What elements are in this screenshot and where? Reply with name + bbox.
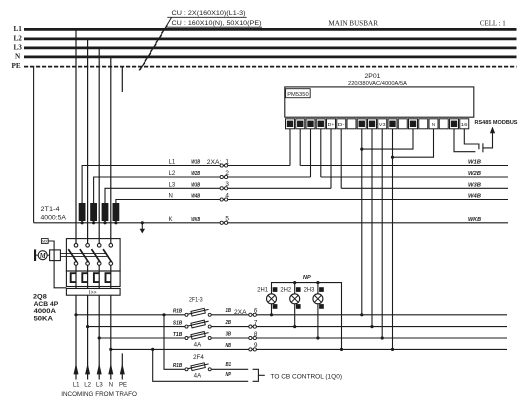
svg-text:I>>: I>> [89,290,97,296]
wire N dropper [110,57,112,244]
wire NP bus [272,283,342,350]
svg-text:MAIN BUSBAR: MAIN BUSBAR [328,20,378,28]
breaker pole L2 blade [80,249,89,262]
svg-text:CU : 160X10(N), 50X10(PE): CU : 160X10(N), 50X10(PE) [172,20,262,27]
svg-text:2T1-4: 2T1-4 [41,206,60,213]
wire control row 8 left [99,337,185,339]
junction T8 [360,313,363,316]
lamp 2H3 terminals [319,287,324,292]
junction 2F4 tap [162,313,165,316]
svg-text:3B: 3B [226,331,232,337]
lamp 2H2 terminals [296,287,301,292]
terminal 2XA:7 [249,325,252,328]
wire meter terminal 9 [371,129,373,327]
wire meter terminal 11 [392,129,394,350]
svg-text:S1B: S1B [173,320,182,326]
CT 2T3 (L3) [102,203,109,221]
terminal 2XA:1 [220,164,223,167]
trip sensor L1 [71,273,76,282]
svg-text:2B: 2B [225,320,232,326]
svg-text:2H2: 2H2 [280,287,291,293]
svg-text:WKB: WKB [191,217,200,223]
trip relay strip [66,289,120,296]
wire PE incoming lower [121,353,123,379]
ground symbol [141,223,143,229]
wire control row 8 right [211,337,507,339]
svg-text:L2: L2 [14,35,23,43]
wire MX to trip [48,241,66,288]
svg-text:WKB: WKB [468,217,481,223]
connector RS485 [482,143,484,152]
breaker pole N bottom contact [109,262,113,266]
terminal 2XA:9 [249,348,252,351]
svg-text:L2: L2 [84,383,91,389]
junction row 7 tap [86,325,89,328]
svg-text:NP: NP [226,372,232,378]
svg-text:W3B: W3B [468,183,481,189]
busbar L1 [24,28,517,31]
svg-text:N: N [15,53,21,61]
svg-text:W4B: W4B [468,194,481,200]
cable tick at L3 [150,44,156,52]
wire meter terminal 10 [381,129,383,338]
power meter U2P01 box [285,87,474,117]
wire meter terminal 4 [320,129,322,177]
svg-text:2XA:: 2XA: [207,159,222,166]
svg-text:4000A: 4000A [34,308,56,315]
CT 2T1 (L1) [79,203,86,221]
fuse 2F1-3 pole T [188,333,209,338]
svg-text:5: 5 [225,216,229,223]
wire control row 9 (N) [111,348,507,350]
svg-text:W2B: W2B [191,171,200,177]
lamp 2H1 terminals [273,287,278,292]
breaker pole N blade [103,249,112,262]
node L3 row left [105,188,331,203]
wire RS485 A [454,129,475,152]
junction NP return [151,348,154,351]
wire motor-linkage [47,254,49,256]
junction CT3-K [103,221,106,224]
wire meter terminal 2 [299,129,301,166]
svg-text:2: 2 [225,170,229,177]
incoming arrow L3 [97,363,102,374]
busbar PE [24,66,517,68]
terminal 2XA:6 [249,313,252,316]
svg-text:R1B: R1B [173,309,182,315]
wire RS485 B [464,129,479,149]
svg-text:6: 6 [254,308,258,315]
lamp 2H2 [290,294,300,304]
wire aux T11-T15 [393,129,434,157]
svg-text:N: N [109,383,113,389]
junction NP-row9 [340,348,343,351]
linkage box [50,250,61,261]
incoming arrow L2 [85,363,90,374]
junction lamp 3 [316,336,319,339]
wire pole N lower [110,265,112,379]
svg-text:2F4: 2F4 [193,355,204,361]
node K row [34,222,508,224]
lamp 2H3 [313,294,323,304]
svg-text:MX: MX [42,240,48,244]
CT 2T2 (L2) [90,203,97,221]
svg-text:4A: 4A [194,373,202,379]
wire control row 6 left [76,314,185,316]
cable label underline 1 [167,16,246,18]
meter model PM5350 [286,89,311,98]
wire lamp 3 top [317,283,319,294]
trip sensor L3 [94,273,99,282]
busbar L2 [24,38,517,41]
breaker pole L3 top contact [97,244,101,248]
junction NP lamp 3 [316,281,319,284]
svg-text:CU : 2X(160X10)(L1-3): CU : 2X(160X10)(L1-3) [172,10,246,17]
terminal 2XA:5 [220,221,223,224]
breaker pole N top contact [109,244,113,248]
cable tick at N [145,53,151,61]
motor operator handle [34,249,36,261]
wire meter terminal 1 [289,129,291,166]
arrow RS485 [490,127,495,134]
connector CB control [253,369,259,381]
wire handle-motor [36,254,38,256]
svg-text:8: 8 [254,331,258,338]
busbar N [24,56,517,59]
wire L2 dropper [87,39,89,244]
wire 2F4 feed [164,315,185,370]
fuse 2F1-3 pole R [188,309,209,314]
terminal 2XA:8 [249,336,252,339]
meter terminal strip [286,119,295,129]
svg-text:1: 1 [225,158,229,165]
wire control row 6 right [211,314,507,316]
cable tick at L1 [161,26,167,34]
svg-text:NP: NP [303,275,311,281]
wire pole L3 lower [98,265,100,379]
release MX box [41,239,48,244]
CT 2T4 (N) [113,203,120,221]
node N row [116,200,508,204]
junction CT1-K [81,221,84,224]
svg-text:NB: NB [226,343,232,349]
incoming arrow PE [120,363,125,374]
wire meter terminal 3 [310,129,312,177]
junction T9 [370,325,373,328]
junction row 6 tap [74,313,77,316]
svg-text:D-: D- [338,122,345,127]
wire PE tap upper [121,67,123,92]
wire L1 row right [300,165,508,167]
svg-text:9: 9 [254,342,258,349]
svg-text:3: 3 [225,181,229,188]
junction CT4-K [114,221,117,224]
svg-text:L3: L3 [96,383,103,389]
svg-text:R1B: R1B [173,363,182,369]
lamp 2H1 [267,294,277,304]
svg-text:RS485 MODBUS: RS485 MODBUS [475,120,518,126]
breaker linkage [60,253,107,255]
cable tick at L2 [156,35,162,43]
svg-text:16: 16 [461,122,468,127]
wire pole L2 lower [87,265,89,379]
trip sensor L2 [82,273,87,282]
breaker trip unit box [66,271,120,287]
svg-text:L3: L3 [14,44,23,52]
wire meter terminal 8 [361,129,363,315]
wire NP return [153,349,249,381]
svg-text:B1: B1 [226,362,232,368]
incoming arrow L1 [74,363,79,374]
svg-text:2F1-3: 2F1-3 [189,298,203,304]
node L1 row left [82,166,290,204]
svg-text:N: N [432,122,435,127]
svg-text:1B: 1B [226,308,232,314]
wire L1 dropper [75,29,77,243]
svg-text:TO CB CONTROL (1Q0): TO CB CONTROL (1Q0) [271,374,343,380]
svg-text:CELL : 1: CELL : 1 [480,20,506,28]
svg-text:K: K [169,217,173,223]
junction row 9 tap [109,348,112,351]
breaker pole L3 blade [92,249,101,262]
svg-text:M: M [39,253,47,260]
svg-text:50KA: 50KA [34,315,53,322]
svg-text:L3: L3 [169,183,176,189]
wire meter terminal 5 [330,129,332,189]
svg-text:W2B: W2B [468,171,481,177]
wire lamp 2 bottom [294,304,296,327]
wire L2 row right [321,176,508,178]
cable leader slash [140,18,172,71]
svg-text:N: N [169,194,173,200]
junction aux T11 [391,156,394,159]
svg-text:4: 4 [225,192,229,199]
svg-text:PE: PE [12,62,21,70]
junction aux T8 [360,148,363,151]
junction K ground [141,221,144,224]
terminal 2XA:2 [220,175,223,178]
terminal 2XA:4 [220,198,223,201]
svg-text:W4B: W4B [191,194,200,200]
svg-text:T1B: T1B [173,332,182,338]
svg-text:220/380VAC/4000A/5A: 220/380VAC/4000A/5A [348,81,407,87]
wire lamp 2 top [294,283,296,294]
wire PE-to-K feed [33,67,35,223]
svg-text:2H1: 2H1 [257,287,268,293]
svg-text:PM5350: PM5350 [287,92,309,98]
svg-text:INCOMING FROM TRAFO: INCOMING FROM TRAFO [61,391,137,398]
svg-text:4000:5A: 4000:5A [41,214,67,221]
wire lamp 1 bottom [271,304,273,315]
cable label underline 2 [167,26,262,28]
svg-text:2XA: 2XA [234,309,247,316]
motor operator M [38,251,47,260]
junction lamp 2 [293,325,296,328]
svg-text:L1: L1 [73,383,80,389]
svg-text:ACB 4P: ACB 4P [34,301,59,308]
wire 2F4 out [211,368,248,370]
fuse 2F4 [188,364,209,369]
wire lamp 3 bottom [317,304,319,338]
svg-text:2Q8: 2Q8 [33,294,47,301]
fuse 2F1-3 pole S [188,321,209,326]
svg-text:L1: L1 [14,25,23,33]
junction row 8 tap [98,336,101,339]
trip sensor N [106,273,111,282]
svg-text:V3: V3 [379,122,386,127]
junction T11 [391,348,394,351]
svg-text:D+: D+ [328,122,335,127]
junction NP lamp 2 [293,281,296,284]
wire pole L1 lower [75,265,77,379]
breaker pole L1 top contact [74,244,78,248]
incoming arrow N [108,363,113,374]
svg-text:W3B: W3B [191,183,200,189]
svg-text:W1B: W1B [468,160,481,166]
node L2 row left [94,177,311,203]
svg-text:4A: 4A [194,343,202,349]
wire RS485 out [483,133,493,148]
breaker pole L1 blade [68,249,77,262]
breaker pole L3 bottom contact [97,262,101,266]
terminal 2XA:3 [220,187,223,190]
wire aux T8-T13 [362,129,413,149]
cable tick at PE [139,63,145,71]
svg-text:7: 7 [254,319,258,326]
wire L3 dropper [98,48,100,244]
breaker 2Q8 main box [66,239,120,271]
wire control row 7 left [88,326,185,328]
svg-text:W1B: W1B [191,160,200,166]
svg-text:L1: L1 [169,160,176,166]
junction lamp 1 [270,313,273,316]
svg-text:2H3: 2H3 [304,287,315,293]
breaker pole L2 bottom contact [86,262,90,266]
junction CT2-K [92,221,95,224]
wire L3 row right [341,187,508,189]
svg-text:PE: PE [119,383,127,389]
wire control row 7 right [211,326,507,328]
svg-text:2P01: 2P01 [365,74,382,80]
wire meter terminal 6 [340,129,342,189]
breaker pole L2 top contact [86,244,90,248]
busbar L3 [24,47,517,50]
junction T10 [381,336,384,339]
svg-text:L2: L2 [169,171,176,177]
breaker pole L1 bottom contact [74,262,78,266]
